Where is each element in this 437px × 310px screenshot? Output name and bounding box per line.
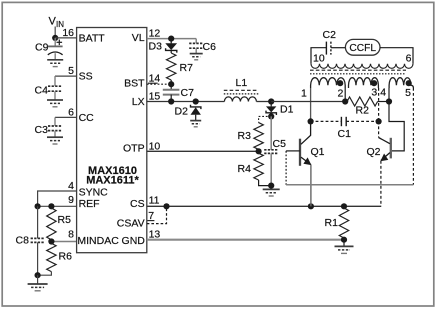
inductor L1 label: [236, 77, 248, 89]
capacitor C3: [48, 126, 62, 131]
svg-text:L1: L1: [236, 77, 248, 89]
wire T1 pin1 to Q1 collector node: [310, 88, 312, 121]
wire REF pin9: [38, 205, 77, 207]
resistor R4: [254, 153, 263, 180]
junction D1/C5/R3: [268, 113, 274, 119]
inductor L1 core lines: [224, 90, 259, 94]
svg-text:C5: C5: [273, 138, 287, 150]
junction VIN/BATT/C9: [52, 35, 58, 41]
transformer T1 core lines: [310, 70, 406, 74]
capacitor C2 label: [323, 29, 337, 41]
svg-text:R1: R1: [325, 217, 339, 229]
svg-text:6: 6: [68, 106, 74, 118]
svg-text:C8: C8: [16, 235, 30, 247]
diode D3 label: [149, 41, 163, 53]
pin number 16: [62, 27, 74, 39]
pin number 13: [149, 229, 161, 241]
wire C8 bottom link: [37, 242, 39, 275]
junction Q1 collector node: [308, 118, 314, 124]
wire C5 top link: [270, 116, 272, 149]
capacitor C6 label: [203, 41, 217, 53]
wire CS pin11: [147, 205, 381, 207]
ground C3: [47, 137, 63, 144]
IC name MAX1610: [88, 165, 137, 177]
junction Q2 collector node: [376, 118, 382, 124]
pin name CC: [79, 112, 95, 124]
junction CS/R1 top: [341, 203, 347, 209]
svg-text:D2: D2: [175, 106, 189, 118]
junction T1 pin4/R2: [386, 98, 392, 104]
ground C8/R6: [28, 284, 48, 291]
transformer T1 feedback winding 4-5: [389, 78, 413, 88]
pin name SS: [79, 71, 93, 83]
transistor Q1 label: [311, 146, 325, 158]
capacitor C5: [264, 150, 278, 154]
capacitor C4: [48, 86, 62, 91]
svg-text:BATT: BATT: [79, 33, 106, 45]
junction VL/D3: [168, 36, 174, 42]
resistor R3: [254, 123, 263, 150]
diode D2 label: [175, 106, 189, 118]
resistor R3 label: [238, 130, 252, 142]
capacitor C5 label: [273, 138, 287, 150]
resistor R4 label: [238, 163, 252, 175]
junction BST/R7/C7: [168, 81, 174, 87]
capacitor C7: [163, 90, 180, 95]
svg-text:CS: CS: [130, 198, 145, 210]
wire L1 to D1: [256, 101, 271, 103]
wire T1 pin2 down: [344, 88, 346, 102]
inductor L1: [224, 97, 256, 102]
svg-text:MINDAC: MINDAC: [77, 235, 119, 247]
wire R6 bottom link: [38, 272, 52, 276]
wire R2 to T1 pin4: [378, 101, 389, 103]
svg-text:8: 8: [68, 228, 74, 240]
svg-text:9: 9: [68, 194, 74, 206]
wire ground link: [37, 275, 39, 284]
pin name CS: [130, 198, 145, 210]
resistor R5: [47, 208, 56, 240]
lamp CCFL: [345, 39, 380, 55]
wire VL pin12: [147, 38, 196, 40]
svg-text:R3: R3: [238, 130, 252, 142]
junction CS/CSAV: [163, 203, 169, 209]
svg-text:C4: C4: [35, 85, 49, 97]
capacitor C8 label: [16, 235, 30, 247]
node VIN label: [49, 16, 65, 30]
ground R1: [335, 246, 354, 253]
ground C4: [47, 100, 63, 107]
wire VIN stub: [54, 27, 56, 38]
wire T1 pin5 dashed: [412, 88, 414, 185]
svg-text:5: 5: [68, 65, 74, 77]
wire D1 bottom link: [270, 113, 272, 117]
phase dot pin 5: [406, 80, 412, 86]
transformer T1 pin 2 label: [337, 87, 343, 99]
transformer T1 pin 6 label: [406, 53, 412, 65]
phase dot pin 2: [337, 80, 343, 86]
junction CS/R1/emitter Q1: [308, 203, 314, 209]
svg-text:LX: LX: [132, 96, 145, 108]
svg-text:C6: C6: [203, 41, 217, 53]
svg-text:4: 4: [380, 87, 386, 99]
resistor R7 label: [180, 62, 194, 74]
wire secondary left top: [311, 48, 326, 64]
junction L1/D1: [268, 98, 274, 104]
resistor R1 label: [325, 217, 339, 229]
svg-text:GND: GND: [122, 235, 146, 247]
svg-text:VL: VL: [132, 32, 145, 44]
resistor R2 label: [356, 105, 370, 117]
svg-text:R7: R7: [180, 62, 194, 74]
wire CC pin6: [55, 116, 77, 118]
pin name GND: [122, 235, 146, 247]
transformer T1 pin 3 label: [371, 87, 377, 99]
wire CS right corner: [380, 205, 382, 207]
transformer T1 pin 10 label: [313, 53, 325, 65]
pin number 15: [149, 91, 161, 103]
ground C6: [190, 54, 203, 60]
wire C5 bottom link: [270, 153, 272, 185]
svg-text:2: 2: [337, 87, 343, 99]
svg-text:16: 16: [62, 27, 74, 39]
diode D3: [165, 43, 177, 52]
diode D1 label: [280, 104, 294, 116]
svg-text:6: 6: [406, 53, 412, 65]
wire C7 top link: [170, 84, 172, 90]
svg-text:R6: R6: [59, 251, 73, 263]
transistor Q2 emitter: [380, 153, 390, 162]
resistor R2: [347, 97, 378, 106]
svg-text:Q2: Q2: [367, 146, 381, 158]
svg-text:11: 11: [149, 194, 160, 206]
pin name BATT: [79, 33, 106, 45]
wire Q1 emitter to CS: [310, 165, 312, 206]
junction R5/R6/MINDAC: [48, 238, 54, 244]
wire D1 to T1 pin2: [271, 101, 345, 103]
resistor R1: [339, 208, 348, 238]
svg-text:BST: BST: [124, 78, 145, 90]
resistor R6 label: [59, 251, 73, 263]
transformer T1 pin 4 label: [380, 87, 386, 99]
svg-text:R2: R2: [356, 105, 370, 117]
junction C5/R4 ground node: [268, 183, 274, 189]
wire R1 ground link: [343, 240, 345, 247]
wire C1 left dashed: [311, 120, 342, 122]
svg-text:10: 10: [313, 53, 325, 65]
wire BST pin14 dotted: [147, 83, 171, 85]
wire T1 pin4 down: [388, 88, 390, 102]
pin name LX: [132, 96, 145, 108]
transistor Q2 label: [367, 146, 381, 158]
transformer T1 pin 5 label: [405, 87, 411, 99]
svg-text:C9: C9: [35, 42, 49, 54]
pin number 7: [147, 210, 154, 222]
svg-text:10: 10: [149, 140, 161, 152]
transistor Q2 base bar: [390, 138, 392, 159]
wire C2 to CCFL: [331, 47, 346, 49]
wire C9 bottom link: [54, 53, 56, 60]
ground D2: [190, 121, 201, 127]
svg-text:3: 3: [371, 87, 377, 99]
junction LX/D2: [193, 98, 199, 104]
pin number 10: [149, 140, 161, 152]
IC name MAX1611*: [86, 175, 139, 187]
svg-text:MAX1611*: MAX1611*: [86, 175, 139, 187]
svg-text:4: 4: [68, 180, 74, 192]
resistor R7: [167, 50, 176, 84]
wire C1 right dashed: [346, 120, 378, 122]
junction OTP/R3/R4: [256, 148, 262, 154]
wire C8 top link: [37, 206, 39, 238]
transformer T1 pin 1 label: [301, 87, 307, 99]
op-amp U1 MAX1610 IC box: [77, 28, 147, 253]
wire D1 top link: [270, 102, 272, 107]
svg-text:C3: C3: [35, 124, 49, 136]
wire Q1 base stub: [286, 150, 300, 152]
diode D2: [191, 105, 201, 115]
junction T1 pin2/R2: [342, 98, 348, 104]
junction REF/R5: [48, 203, 54, 209]
capacitor C8: [31, 238, 45, 242]
svg-text:D3: D3: [149, 41, 163, 53]
svg-text:Q1: Q1: [311, 146, 325, 158]
svg-text:SS: SS: [79, 71, 93, 83]
pin number 9: [68, 194, 74, 206]
pin name BST: [124, 78, 145, 90]
svg-text:OTP: OTP: [123, 142, 145, 154]
transistor Q2 collector dashed: [379, 121, 390, 143]
wire GND pin13: [147, 239, 344, 241]
ground C9: [47, 60, 63, 67]
transistor Q1 collector: [301, 121, 311, 144]
wire C3 top link: [54, 117, 56, 126]
wire C3 bottom link: [54, 131, 56, 138]
wire Q1 base dotted down: [285, 151, 287, 185]
wire CSAV pin7 dashed: [147, 206, 167, 223]
capacitor C4 label: [35, 85, 49, 97]
wire LX pin15: [147, 101, 225, 103]
transistor Q1 base bar: [299, 139, 301, 166]
svg-text:14: 14: [149, 72, 161, 84]
wire C7 bottom link: [170, 95, 172, 102]
wire C6 top link: [195, 39, 197, 44]
wire C6 bottom link: [195, 48, 197, 53]
svg-text:1: 1: [301, 87, 307, 99]
wire C4 top link: [54, 76, 56, 86]
pin number 11: [149, 194, 160, 206]
pin name CSAV: [117, 218, 145, 230]
wire D2 bottom link: [195, 115, 197, 121]
svg-text:5: 5: [405, 87, 411, 99]
resistor R6: [47, 243, 56, 271]
pin name MINDAC: [77, 235, 119, 247]
wire base cross-coupling rail: [286, 184, 413, 186]
svg-text:R4: R4: [238, 163, 252, 175]
wire C4 bottom link: [54, 91, 56, 100]
pin name VL: [132, 32, 145, 44]
svg-text:SYNC: SYNC: [79, 187, 109, 199]
capacitor C9 plus sign: [57, 40, 63, 46]
svg-text:CC: CC: [79, 112, 95, 124]
svg-text:C1: C1: [338, 128, 352, 140]
phase dot pin 3: [371, 80, 377, 86]
capacitor C9: [48, 46, 63, 54]
wire BATT pin16: [55, 37, 76, 39]
svg-text:CSAV: CSAV: [117, 218, 145, 230]
wire Q2 emitter dashed to CS: [380, 161, 382, 206]
capacitor C3 label: [35, 124, 49, 136]
svg-text:D1: D1: [280, 104, 294, 116]
svg-text:12: 12: [149, 27, 161, 39]
capacitor C1 label: [338, 128, 352, 140]
wire T1 pin3 dashed: [378, 88, 380, 121]
junction LX/C7: [168, 98, 174, 104]
pin number 6: [68, 106, 74, 118]
pin number 12: [149, 27, 161, 39]
transistor Q1 emitter: [301, 157, 312, 165]
pin name REF: [79, 198, 100, 210]
diode D1: [266, 106, 276, 115]
pin name SYNC: [79, 187, 109, 199]
capacitor C6: [189, 43, 203, 48]
pin number 8: [68, 228, 74, 240]
pin number 14: [148, 72, 160, 84]
svg-text:CCFL: CCFL: [349, 43, 376, 54]
transformer T1 primary winding 3-4: [349, 78, 379, 88]
wire OTP pin10: [147, 150, 259, 152]
capacitor C1: [341, 117, 346, 126]
transformer T1 secondary winding: [311, 64, 413, 68]
pin number 4: [68, 180, 74, 192]
transformer T1 primary winding 1-2: [311, 78, 346, 88]
wire R3 dotted link: [259, 116, 272, 122]
wire T1 pin4 to Q2 base: [389, 102, 404, 151]
junction R1/GND: [341, 237, 347, 243]
capacitor C2: [326, 42, 331, 55]
wire C5 ground link: [270, 186, 272, 190]
wire CCFL to secondary right: [380, 48, 413, 64]
pin name OTP: [123, 142, 145, 154]
wire C9 top link: [54, 38, 56, 46]
pin number 5: [68, 65, 74, 77]
wire MINDAC pin8: [51, 241, 76, 243]
svg-text:C7: C7: [181, 87, 195, 99]
wire R4 bottom link: [259, 180, 272, 186]
junction SYNC/REF/C8: [35, 203, 41, 209]
wire SYNC pin4: [38, 191, 77, 206]
capacitor C9 label: [35, 42, 49, 54]
svg-text:C2: C2: [323, 29, 337, 41]
resistor R5 label: [58, 214, 72, 226]
capacitor C7 label: [181, 87, 195, 99]
wire SS pin5: [55, 75, 77, 77]
svg-text:R5: R5: [58, 214, 72, 226]
wire D3 top link: [170, 39, 172, 44]
ground C5/R4: [263, 189, 280, 196]
svg-text:REF: REF: [79, 198, 100, 210]
junction C8/R6 ground node: [35, 272, 41, 278]
